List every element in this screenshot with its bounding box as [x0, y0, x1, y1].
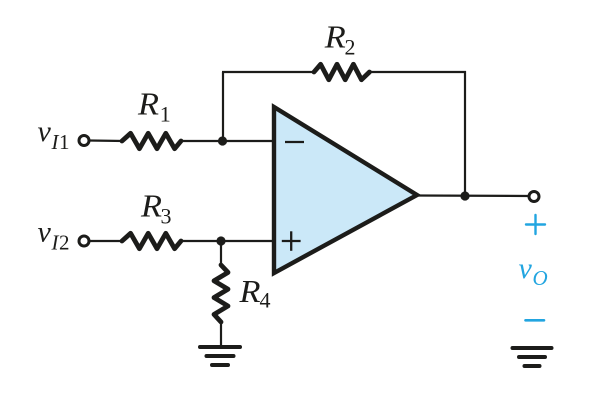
node: non-inverting input junction [216, 236, 225, 245]
wire: inverting node up to feedback rail [222, 72, 224, 142]
label v_I2 [38, 216, 70, 255]
resistor R3 [122, 233, 181, 248]
svg-text:R: R [137, 86, 160, 122]
label + (output polarity, cyan) [526, 215, 545, 234]
label v_I1 [38, 115, 70, 154]
wire: non-inverting node down to R4 [220, 242, 222, 266]
input terminal 2 (open circle) [79, 236, 89, 246]
wire: v_I1 terminal to resistor R1 [89, 139, 124, 142]
svg-text:R: R [140, 188, 163, 224]
label R3 [140, 188, 172, 229]
svg-text:2: 2 [59, 231, 70, 255]
op-amp inverting input marker (minus) [285, 141, 304, 143]
label R1 [137, 86, 171, 127]
wire: v_I2 terminal to resistor R3 [89, 240, 124, 242]
output terminal (open circle) [529, 192, 539, 202]
wire: op-amp output to terminal [415, 194, 530, 197]
svg-text:1: 1 [59, 130, 70, 154]
wire: R4 down to ground [220, 322, 222, 346]
label R4 [238, 273, 270, 313]
svg-text:v: v [519, 252, 533, 285]
ground (right, output reference) [513, 348, 552, 366]
node: inverting input junction [218, 136, 227, 145]
resistor R2 [314, 64, 370, 79]
svg-text:1: 1 [160, 102, 171, 127]
input terminal 1 (open circle) [79, 136, 89, 146]
svg-text:R: R [238, 273, 261, 309]
resistor R4 [214, 265, 228, 322]
svg-text:v: v [38, 115, 52, 148]
label R2 [324, 19, 356, 60]
wire: R3 to non-inverting-input node [179, 240, 272, 242]
wire: feedback rail left segment [222, 71, 316, 73]
svg-text:v: v [38, 216, 52, 249]
svg-text:2: 2 [345, 35, 356, 60]
label v_O (cyan) [519, 252, 548, 290]
wire: feedback rail down to output node [464, 71, 466, 196]
wire: R1 to inverting-input node [179, 140, 274, 142]
wire: feedback rail right segment [368, 71, 466, 73]
node: output junction [460, 191, 469, 200]
ground (left, below R4) [200, 347, 240, 365]
svg-text:O: O [533, 266, 548, 290]
resistor R1 [122, 133, 181, 148]
op-amp U1 [274, 107, 417, 273]
svg-text:R: R [324, 19, 347, 55]
label minus (output polarity, cyan) [526, 319, 545, 322]
svg-text:4: 4 [260, 288, 271, 313]
op-amp non-inverting input marker (plus) [282, 231, 301, 251]
svg-text:3: 3 [161, 204, 172, 229]
